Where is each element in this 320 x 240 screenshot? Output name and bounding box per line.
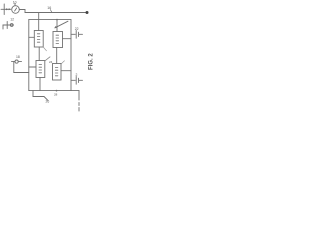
leader tick Q4 top-right <box>62 61 65 64</box>
bottom rail wire <box>29 90 71 92</box>
leader for 16 <box>50 10 52 13</box>
transistor Q4 box <box>53 64 62 81</box>
base lead Q3 <box>29 66 36 68</box>
base lead Q4 <box>61 70 71 72</box>
svg-text:26: 26 <box>46 100 50 104</box>
base lead Q2 <box>63 38 72 40</box>
leader to label 20 <box>43 47 46 51</box>
base lead Q1 <box>29 36 35 38</box>
battery stub upper (22) <box>71 31 83 39</box>
right rail wire <box>70 20 72 91</box>
wire rail to Q1 top <box>38 13 40 31</box>
svg-text:12: 12 <box>10 18 14 22</box>
wire from source to top rail <box>19 10 25 13</box>
node dot at rail end <box>86 11 89 14</box>
label 10 leader <box>14 3 16 5</box>
source G1 (oscillator circle) <box>12 6 20 14</box>
arrowhead <box>54 26 57 28</box>
svg-text:22: 22 <box>75 27 79 31</box>
battery stub lower (32) <box>71 77 83 85</box>
bottom rail extension <box>71 91 79 111</box>
svg-text:16: 16 <box>47 6 51 10</box>
junction dot rail2/Q2 <box>56 19 58 21</box>
wire Q3 to bottom rail <box>39 78 41 91</box>
top rail wire <box>25 12 87 14</box>
leader to label near Q3 <box>45 57 50 61</box>
junction dot Q4 bottom <box>56 90 58 92</box>
output wire down and right <box>14 62 29 73</box>
svg-text:2: 2 <box>76 73 78 77</box>
input terminal T1 <box>1 4 8 15</box>
output terminal circle <box>12 60 22 63</box>
svg-text:FIG. 2: FIG. 2 <box>88 53 94 70</box>
arrow into source <box>8 8 11 10</box>
transistor Q1 box <box>34 31 43 48</box>
input lower terminal symbol <box>3 22 14 30</box>
arrowhead <box>9 8 12 10</box>
wire rail2 to Q2 top <box>56 20 58 32</box>
leader label 26 at bottom <box>33 91 48 100</box>
svg-text:18: 18 <box>16 55 20 59</box>
left rail wire <box>28 20 30 91</box>
svg-text:10: 10 <box>13 0 17 4</box>
transistor Q2 box <box>53 32 63 48</box>
leader arrow to Q2 top <box>55 21 68 28</box>
svg-text:28: 28 <box>54 93 58 97</box>
wire Q2 to Q4 <box>56 48 58 64</box>
second rail wire <box>29 19 71 21</box>
transistor Q3 box <box>36 61 45 78</box>
wire Q1 to Q3 <box>38 47 40 61</box>
